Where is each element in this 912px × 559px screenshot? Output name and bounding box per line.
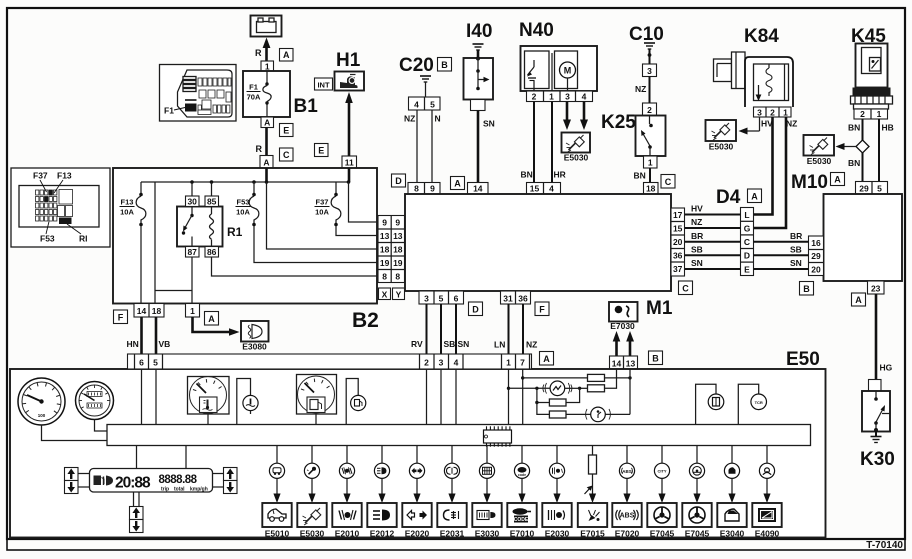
svg-text:16: 16 <box>811 238 821 248</box>
svg-text:SB: SB <box>444 339 456 349</box>
connector label B <box>800 282 814 296</box>
connector label B <box>649 351 663 365</box>
svg-text:85: 85 <box>207 197 217 207</box>
node pin1 branch <box>507 387 510 390</box>
svg-text:20: 20 <box>673 237 683 247</box>
wire NZ ECU-36 to E50-7 <box>522 304 524 354</box>
wire R battery to B1 pin 1 <box>265 45 268 61</box>
arrows N40 3,4 to E5030 <box>566 102 569 124</box>
branch wire to pins 18/1 <box>155 182 192 304</box>
connector label A <box>451 177 465 190</box>
svg-text:E4090: E4090 <box>755 529 780 539</box>
wire NZ C10 to K25 <box>649 77 651 104</box>
LCD headlight icon <box>106 476 113 486</box>
row C parallel resistor <box>537 388 550 402</box>
ground C10 <box>644 43 655 49</box>
symbol box E5030 <box>297 503 326 527</box>
wire HV ECU17 to D4 L <box>685 214 741 216</box>
svg-text:1: 1 <box>648 158 653 168</box>
svg-text:70A: 70A <box>247 93 261 102</box>
svg-text:8: 8 <box>395 272 400 282</box>
svg-text:M1: M1 <box>646 298 673 319</box>
symbol box E4090 <box>752 503 781 527</box>
svg-text:36: 36 <box>673 251 683 261</box>
svg-text:1: 1 <box>877 109 882 119</box>
spark plugs E5030 <box>562 133 591 163</box>
wire LN ECU-31 to E50-1 <box>508 304 510 354</box>
symbol box E3040 <box>717 503 746 527</box>
svg-text:E7030: E7030 <box>610 321 635 331</box>
svg-text:E5010: E5010 <box>265 529 290 539</box>
svg-text:18: 18 <box>646 184 656 194</box>
svg-text:31: 31 <box>503 294 513 304</box>
connector label D <box>392 174 406 187</box>
engine control unit <box>405 194 671 291</box>
connector label C <box>679 281 693 295</box>
connector label A <box>280 49 294 62</box>
svg-text:4: 4 <box>414 100 419 110</box>
connector label E <box>315 144 329 157</box>
svg-text:E7045: E7045 <box>685 529 710 539</box>
svg-text:BR: BR <box>691 231 703 241</box>
svg-text:E3040: E3040 <box>720 529 745 539</box>
svg-text:E5030: E5030 <box>807 156 832 166</box>
wires E50 pins 2,3,4 to bus <box>426 369 428 425</box>
ECU pin 18 <box>644 183 659 195</box>
wire HB K45-1 to M10-5 <box>878 119 880 182</box>
warning lamp E2031 <box>444 446 459 503</box>
wire NZ K84-1 to D4 G <box>754 117 787 228</box>
svg-text:10A: 10A <box>315 208 329 217</box>
svg-text:D: D <box>395 176 402 186</box>
R1 pin 30 <box>186 196 200 207</box>
wire BN N40-2 to pin 15 <box>533 102 535 183</box>
wire odometer to bus <box>95 420 108 432</box>
LCD fuel pump icon <box>94 476 105 486</box>
connector label A <box>748 189 762 203</box>
instrument cluster E50 <box>10 369 826 538</box>
wire SB ECU-5 to E50-3 <box>440 304 442 354</box>
svg-text:ABS: ABS <box>620 513 635 520</box>
svg-text:E: E <box>318 146 324 156</box>
svg-text:K84: K84 <box>744 26 779 47</box>
svg-text:E3080: E3080 <box>242 342 267 352</box>
svg-text:19: 19 <box>380 258 390 268</box>
wire 87 to branch <box>191 257 193 291</box>
svg-text:BN: BN <box>848 123 860 133</box>
svg-text:15: 15 <box>530 184 540 194</box>
svg-text:3: 3 <box>647 66 652 76</box>
svg-text:L: L <box>744 210 749 220</box>
svg-text:8888.88: 8888.88 <box>159 474 198 486</box>
symbol box E7045 <box>647 503 676 527</box>
button bottom down <box>130 520 144 533</box>
wire speedometer to bus <box>42 425 108 441</box>
svg-text:SB: SB <box>691 244 703 254</box>
svg-text:C: C <box>744 237 750 247</box>
svg-text:2: 2 <box>532 92 537 102</box>
wire 86 to pin 8 row <box>212 257 379 276</box>
connector label X <box>379 288 391 300</box>
ground C20 <box>420 76 431 82</box>
wire RV ECU-3 to E50-2 <box>426 304 428 354</box>
svg-text:E2020: E2020 <box>405 529 430 539</box>
svg-text:A: A <box>543 354 550 364</box>
warning lamp E5030 <box>304 446 319 503</box>
button left down <box>65 481 79 494</box>
svg-text:D4: D4 <box>716 187 741 208</box>
wire NZ C20-4 to pin 8 <box>416 110 418 183</box>
wire R B1 to B2 <box>265 128 268 156</box>
wire E50 pin 7 to bus <box>522 369 524 425</box>
warning lamp E2030 <box>549 446 564 503</box>
wires buttons <box>78 473 90 475</box>
node F53 feed <box>252 180 256 184</box>
svg-text:HR: HR <box>554 170 566 180</box>
svg-text:17: 17 <box>673 210 683 220</box>
svg-text:F37: F37 <box>316 198 329 207</box>
wire SN I40 to pin 14 <box>477 111 480 183</box>
ECU pins 31 36 <box>501 291 531 304</box>
svg-text:23: 23 <box>871 284 881 294</box>
inset fusebox location B1 <box>160 65 237 122</box>
connector label C <box>661 175 675 189</box>
svg-text:87: 87 <box>187 247 197 257</box>
svg-text:E: E <box>744 265 750 275</box>
printed circuit bus bar <box>107 425 811 446</box>
svg-text:36: 36 <box>518 294 528 304</box>
svg-text:BN: BN <box>521 170 533 180</box>
wire 30 to feed <box>191 182 193 196</box>
svg-text:G: G <box>744 224 751 234</box>
svg-text:code: code <box>518 473 526 477</box>
N40 motor M <box>560 62 576 78</box>
svg-text:A: A <box>751 192 758 202</box>
wire HV K84-2 to D4 L <box>754 117 773 215</box>
wires E50 pins 6,5 to bus <box>141 369 143 425</box>
svg-text:E2031: E2031 <box>440 529 465 539</box>
fuse F13 <box>120 182 146 304</box>
B2 pin 1 bottom <box>186 304 200 318</box>
fuel gauge <box>297 375 337 415</box>
svg-text:5: 5 <box>153 358 158 368</box>
switch K30 <box>862 391 890 432</box>
svg-text:1: 1 <box>506 358 511 368</box>
svg-text:C10: C10 <box>629 24 664 45</box>
symbol box E2031 <box>437 503 466 527</box>
svg-text:E7010: E7010 <box>510 529 535 539</box>
wire HR N40-1 to pin 4 <box>551 102 553 183</box>
svg-text:C20: C20 <box>399 55 434 76</box>
svg-text:5: 5 <box>439 294 444 304</box>
svg-text:B2: B2 <box>352 309 379 332</box>
svg-text:CITY: CITY <box>657 469 666 474</box>
svg-text:R: R <box>256 144 263 154</box>
svg-text:C: C <box>682 284 689 294</box>
wire pin 11 into B2 <box>348 168 351 182</box>
connector label F <box>535 302 549 316</box>
svg-text:M10: M10 <box>791 172 828 193</box>
row D clock lamp <box>537 403 550 415</box>
wire BR D4 C to M10-16 <box>754 241 809 243</box>
svg-text:F53: F53 <box>40 234 55 244</box>
svg-text:4: 4 <box>582 92 587 102</box>
M10 pin 23 <box>868 281 885 294</box>
svg-text:13: 13 <box>380 231 390 241</box>
svg-text:18: 18 <box>152 306 162 316</box>
B1 pin A <box>261 117 274 128</box>
svg-text:RV: RV <box>411 339 423 349</box>
svg-text:A: A <box>208 314 215 324</box>
wire F53 to pin 19 row <box>254 226 378 263</box>
svg-text:18: 18 <box>380 245 390 255</box>
symbol box E7020 <box>612 503 641 527</box>
B2/ECU pin block 9 13 18 19 8 <box>378 216 405 283</box>
temp sender lamp <box>237 379 258 426</box>
symbol box E7015 <box>578 503 607 527</box>
svg-text:5: 5 <box>877 184 882 194</box>
svg-text:E7045: E7045 <box>650 529 675 539</box>
splice diamond <box>856 140 869 153</box>
svg-text:3: 3 <box>565 92 570 102</box>
wire fuel gauge to bus <box>315 414 317 425</box>
button right down <box>224 481 238 494</box>
warning lamp E3040 <box>724 446 739 503</box>
fuel level sensor lamp <box>509 387 551 389</box>
svg-text:9: 9 <box>430 184 435 194</box>
warning lamp E2012 <box>374 446 389 503</box>
ECU pins 3 5 6 <box>419 291 464 304</box>
door lamp <box>696 384 724 425</box>
internal feed bus <box>141 181 349 183</box>
svg-text:B1: B1 <box>294 96 319 117</box>
svg-text:F13: F13 <box>121 198 134 207</box>
svg-text:B: B <box>441 60 448 70</box>
wire SB ECU36 to D4 D <box>685 254 741 256</box>
connector label F <box>114 310 128 324</box>
wire 85 to feed <box>211 182 213 196</box>
svg-text:N: N <box>435 114 441 124</box>
connector label Y <box>393 288 405 300</box>
svg-text:B: B <box>803 284 810 294</box>
svg-text:X: X <box>382 290 388 300</box>
svg-text:E: E <box>283 126 289 136</box>
K84 pins 3 2 1 <box>754 107 792 118</box>
svg-text:R1: R1 <box>227 225 243 239</box>
svg-text:19: 19 <box>393 258 403 268</box>
svg-text:HN: HN <box>127 339 139 349</box>
connector label A <box>540 352 554 366</box>
fusebox B1 <box>243 71 290 117</box>
svg-text:A: A <box>264 118 270 128</box>
wires bus to LCD <box>136 446 138 469</box>
svg-text:C: C <box>665 177 672 187</box>
svg-text:10A: 10A <box>120 208 134 217</box>
ECU pins 8 9 <box>408 183 440 195</box>
warning lamp E5010 <box>269 446 284 503</box>
wire BR ECU20 to D4 C <box>685 241 741 243</box>
wire BN K45-2 down <box>862 119 864 141</box>
arrowhead to battery <box>263 38 271 49</box>
svg-text:B: B <box>652 354 659 364</box>
symbol box E2012 <box>367 503 396 527</box>
connector label A <box>831 173 845 186</box>
svg-text:A: A <box>855 295 862 305</box>
svg-text:10A: 10A <box>236 208 250 217</box>
fuse/relay box B2 <box>113 168 377 304</box>
warning lamp E2010 <box>339 446 354 503</box>
ground I40 <box>473 44 484 50</box>
svg-text:F: F <box>118 313 124 323</box>
bus wire from pin A <box>265 168 268 182</box>
B2 pins 14 18 bottom <box>134 304 164 318</box>
svg-text:BR: BR <box>790 231 802 241</box>
svg-text:9: 9 <box>382 218 387 228</box>
svg-text:F53: F53 <box>237 198 250 207</box>
svg-text:E7015: E7015 <box>580 529 605 539</box>
B2 pin 11 <box>342 156 357 168</box>
warning lamp E7045 <box>654 446 669 503</box>
wire SB D4 D to M10-29 <box>754 254 809 256</box>
svg-text:K30: K30 <box>860 449 895 470</box>
svg-text:NZ: NZ <box>404 114 415 124</box>
ECU pins 17 15 20 36 37 <box>671 208 685 276</box>
svg-text:E5030: E5030 <box>709 142 734 152</box>
svg-text:NZ: NZ <box>526 340 537 350</box>
svg-text:29: 29 <box>859 184 869 194</box>
svg-text:8: 8 <box>414 184 419 194</box>
svg-text:CODE: CODE <box>514 517 529 523</box>
wire N C20-5 to pin 9 <box>431 110 433 183</box>
wire NZ ECU15 to D4 G <box>685 227 741 229</box>
svg-text:SN: SN <box>458 339 470 349</box>
svg-text:6: 6 <box>454 294 459 304</box>
wire BN K25 to pin 18 <box>649 168 651 183</box>
wire SN ECU-6 to E50-4 <box>455 304 457 354</box>
wire E50 pin 13 down <box>629 369 631 414</box>
svg-text:14: 14 <box>473 184 483 194</box>
E50 connector strip <box>128 354 532 369</box>
warning lamp E7015 <box>585 446 597 503</box>
headlamps E3080 <box>241 321 269 352</box>
inset fusebox location B2 <box>11 168 110 247</box>
R1 pin 86 <box>205 247 219 258</box>
symbol box E3030 <box>472 503 501 527</box>
ground K30 <box>875 432 877 437</box>
svg-text:E3030: E3030 <box>475 529 500 539</box>
fuse F1 highlighted <box>185 104 197 112</box>
svg-text:6: 6 <box>139 358 144 368</box>
svg-text:13: 13 <box>393 231 403 241</box>
svg-text:20:88: 20:88 <box>115 475 151 492</box>
wire VB B2-18 to E50-5 <box>155 317 158 354</box>
symbol box E7045 <box>682 503 711 527</box>
R1 pin 87 <box>186 247 200 258</box>
svg-text:trip: trip <box>161 487 169 493</box>
arrow K84-3 to E5030 <box>759 117 761 131</box>
warning lamp E7010 <box>514 446 529 503</box>
symbol box E5010 <box>262 503 291 527</box>
svg-text:VB: VB <box>159 339 171 349</box>
svg-text:E2012: E2012 <box>370 529 395 539</box>
E50 pins 14 13 <box>610 356 638 369</box>
svg-text:20: 20 <box>811 265 821 275</box>
svg-text:A: A <box>283 50 290 60</box>
node A feed <box>265 180 269 184</box>
svg-text:1: 1 <box>783 108 788 118</box>
D4 terminals L G C D E <box>741 208 754 276</box>
svg-text:F1: F1 <box>249 83 258 92</box>
B2 pin A top <box>260 156 273 169</box>
odometer dial <box>76 382 114 420</box>
wire E50 pin 14 to resistor row B <box>605 369 617 388</box>
relay R1 <box>177 207 243 247</box>
K45 pins 2 1 <box>854 109 888 119</box>
svg-text:K25: K25 <box>601 112 636 133</box>
resistor row B <box>588 385 605 392</box>
svg-text:F1: F1 <box>164 106 174 116</box>
svg-text:11: 11 <box>345 158 354 168</box>
LCD display module <box>90 469 213 493</box>
connector label E <box>280 124 294 137</box>
wire SN ECU37 to D4 E <box>685 268 741 270</box>
ECU pins 15 4 <box>527 183 561 195</box>
svg-text:4: 4 <box>454 358 459 368</box>
svg-text:86: 86 <box>207 247 217 257</box>
K30 connector stub <box>869 380 882 392</box>
svg-text:2: 2 <box>860 109 865 119</box>
connector label A <box>205 312 219 326</box>
wire HN B2-14 to E50-6 <box>140 317 143 354</box>
svg-text:F13: F13 <box>57 171 72 181</box>
svg-text:7: 7 <box>520 358 525 368</box>
microprocessor chip <box>484 426 512 446</box>
fuse F37 <box>315 182 341 226</box>
svg-text:D: D <box>472 305 479 315</box>
node 85 feed <box>210 180 214 184</box>
warning lamp E7045 <box>689 446 704 503</box>
speedometer <box>18 378 65 425</box>
symbol box E2010 <box>332 503 361 527</box>
symbol box E2030 <box>542 503 571 527</box>
svg-text:14: 14 <box>137 306 147 316</box>
immobilizer lamp <box>738 384 766 425</box>
svg-text:E50: E50 <box>786 349 820 370</box>
svg-text:8: 8 <box>382 272 387 282</box>
svg-text:15: 15 <box>673 224 683 234</box>
arrows E50 14,13 to E7030 <box>615 338 618 356</box>
svg-text:37: 37 <box>673 264 683 274</box>
svg-text:N40: N40 <box>519 20 554 41</box>
connector label B <box>438 58 452 72</box>
N40 pins 2 1 3 4 <box>527 91 593 102</box>
svg-text:kmp/gh: kmp/gh <box>190 487 208 493</box>
svg-text:HG: HG <box>880 363 893 373</box>
svg-text:C: C <box>283 150 290 160</box>
connector label C <box>280 148 294 161</box>
wire to H1 with arrow <box>348 99 351 156</box>
fuse F1 70A <box>247 71 272 117</box>
svg-text:R: R <box>255 48 262 58</box>
svg-text:HB: HB <box>882 123 894 133</box>
arrow B2-1 to E3080 <box>193 317 234 332</box>
B1 pin 1 <box>261 61 274 72</box>
svg-text:1: 1 <box>190 306 195 316</box>
N40 level switch icon <box>533 60 535 67</box>
node F37 corner <box>347 180 351 184</box>
svg-text:SN: SN <box>790 258 802 268</box>
connector label D <box>469 302 483 316</box>
